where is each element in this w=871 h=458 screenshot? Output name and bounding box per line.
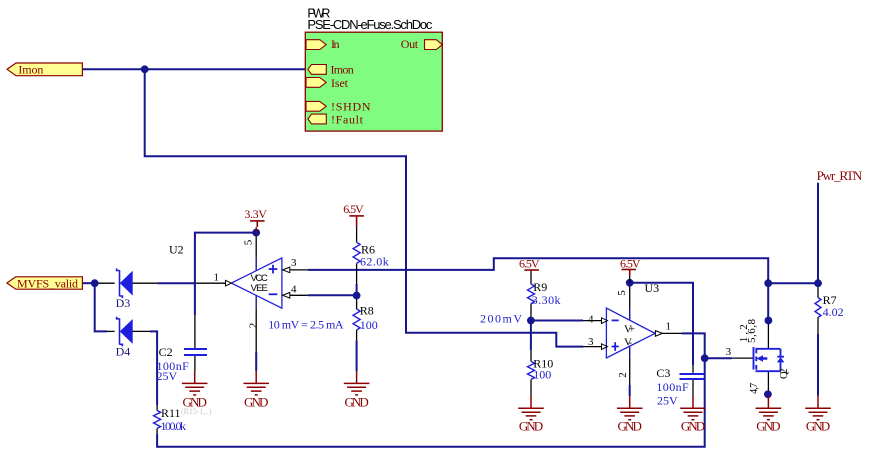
svg-text:6.5V: 6.5V	[519, 257, 540, 271]
svg-text:3.30k: 3.30k	[532, 293, 561, 307]
svg-text:U3: U3	[645, 281, 660, 295]
svg-text:In: In	[331, 37, 340, 51]
svg-text:V-: V-	[624, 337, 632, 349]
svg-text:4: 4	[291, 284, 297, 296]
svg-text:3: 3	[726, 346, 732, 358]
svg-text:4: 4	[588, 314, 594, 326]
svg-text:Out: Out	[401, 37, 419, 51]
svg-text:GND: GND	[244, 394, 268, 409]
svg-text:2: 2	[248, 323, 260, 329]
svg-text:GND: GND	[618, 419, 642, 434]
svg-text:PSE-CDN-eFuse.SchDoc: PSE-CDN-eFuse.SchDoc	[307, 17, 433, 32]
svg-text:!Fault: !Fault	[331, 112, 364, 126]
svg-text:4.02: 4.02	[823, 305, 844, 319]
svg-text:R8: R8	[360, 303, 374, 317]
svg-text:V+: V+	[624, 324, 635, 336]
svg-text:5: 5	[243, 239, 255, 245]
svg-text:GND: GND	[344, 394, 368, 409]
svg-text:Pwr_RTN: Pwr_RTN	[817, 168, 863, 183]
svg-text:VEE: VEE	[251, 283, 268, 294]
svg-text:4,7: 4,7	[749, 383, 760, 394]
svg-text:5,6,8: 5,6,8	[746, 319, 758, 344]
svg-text:6.5V: 6.5V	[343, 202, 364, 216]
svg-text:1: 1	[214, 272, 220, 284]
svg-text:D4: D4	[116, 345, 131, 359]
svg-text:GND: GND	[756, 419, 780, 434]
svg-text:U2: U2	[169, 242, 184, 256]
svg-text:5: 5	[616, 290, 628, 296]
svg-text:3.3V: 3.3V	[244, 207, 267, 221]
svg-text:100.0k: 100.0k	[161, 419, 187, 433]
svg-text:62.0k: 62.0k	[360, 255, 389, 269]
svg-text:25V: 25V	[157, 369, 178, 383]
svg-text:100: 100	[533, 367, 551, 381]
svg-text:Imon: Imon	[18, 63, 43, 77]
svg-text:C3: C3	[656, 366, 670, 380]
svg-text:Q2: Q2	[779, 368, 790, 379]
svg-text:C2: C2	[159, 345, 173, 359]
svg-text:10 mV = 2.5 mA: 10 mV = 2.5 mA	[268, 317, 344, 331]
svg-text:GND: GND	[519, 419, 543, 434]
svg-text:Iset: Iset	[331, 76, 349, 90]
svg-text:3: 3	[291, 257, 297, 269]
svg-text:100nF: 100nF	[656, 380, 689, 394]
svg-text:GND: GND	[806, 419, 830, 434]
svg-text:MVFS_valid: MVFS_valid	[17, 276, 78, 290]
svg-text:(R15-1,..): (R15-1,..)	[181, 407, 212, 416]
svg-text:GND: GND	[681, 419, 705, 434]
svg-text:25V: 25V	[657, 394, 678, 408]
svg-text:100: 100	[360, 318, 378, 332]
svg-text:3: 3	[588, 336, 594, 348]
svg-text:1: 1	[666, 321, 672, 333]
svg-text:6.5V: 6.5V	[620, 256, 641, 270]
svg-text:2: 2	[617, 372, 629, 378]
svg-text:Imon: Imon	[331, 63, 354, 77]
svg-text:D3: D3	[116, 296, 131, 310]
